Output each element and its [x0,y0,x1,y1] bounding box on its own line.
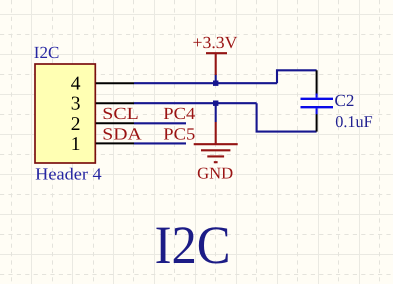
pin 4 (stub + number) [96,82,134,84]
pin 1 (stub + number) [96,142,134,144]
svg-text:SDA: SDA [102,124,142,143]
capacitor C2 leads (pins) [316,70,318,94]
svg-text:+3.3V: +3.3V [193,33,239,52]
wire stub under +3.3V [215,74,217,84]
svg-text:0.1uF: 0.1uF [335,112,373,131]
svg-text:I2C: I2C [155,215,231,275]
junction on GND net [213,101,218,106]
capacitor C2 plates [301,94,334,115]
wire stub to GND port [215,103,217,122]
junction on VCC net [213,81,218,86]
power port +3.3V [206,53,227,75]
power port GND [194,122,238,162]
svg-text:PC4: PC4 [163,104,196,123]
svg-text:GND: GND [197,163,233,182]
pin 3 (stub + number) [96,102,134,104]
svg-text:I2C: I2C [34,43,60,62]
pin 2 (stub + number) [96,122,134,124]
connector I2C body (Header 4) [35,64,95,163]
svg-text:4: 4 [71,74,81,95]
svg-text:1: 1 [71,134,81,155]
svg-text:Header 4: Header 4 [35,164,102,183]
wire pin3 net [134,102,257,104]
svg-text:PC5: PC5 [163,124,195,143]
wire pin4 to step [134,82,277,84]
svg-text:3: 3 [71,94,81,115]
wire pin1 SDA [134,142,186,144]
svg-text:C2: C2 [335,91,355,110]
svg-text:2: 2 [71,114,81,135]
svg-text:SCL: SCL [102,104,139,123]
wire step up to cap top [277,70,317,83]
wire down and right to cap bottom [257,103,317,131]
wire pin2 SCL [134,122,186,124]
